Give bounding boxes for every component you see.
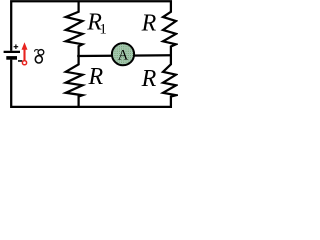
svg-text:R: R <box>141 66 157 92</box>
svg-text:A: A <box>118 48 129 64</box>
svg-text:1: 1 <box>99 22 107 38</box>
svg-text:R: R <box>88 64 104 90</box>
svg-text:R: R <box>141 11 157 37</box>
